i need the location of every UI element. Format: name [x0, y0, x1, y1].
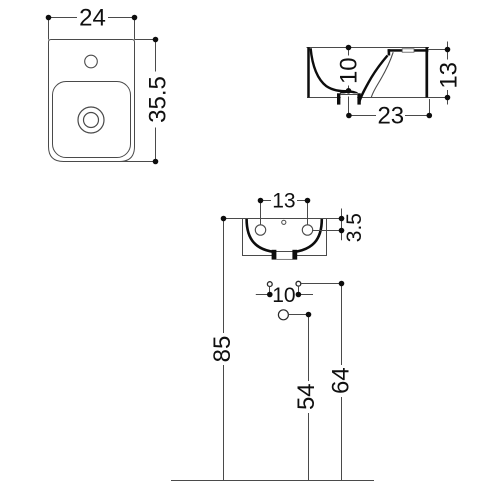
svg-text:85: 85: [209, 336, 236, 363]
svg-text:35.5: 35.5: [144, 76, 171, 123]
floor line: [171, 480, 374, 482]
svg-text:23: 23: [377, 103, 404, 130]
dimension 85 (rim height): [209, 216, 242, 481]
dimension 10 (side view depth): [336, 45, 363, 94]
dimension 3.5 (front, hole depth): [312, 209, 366, 243]
fixing hole to 64 line: [301, 283, 342, 285]
side view deck (thick bar): [388, 49, 429, 52]
right bowl inner curve (thick): [359, 56, 388, 104]
right bowl outer curve (thin): [371, 52, 393, 97]
svg-text:10: 10: [336, 57, 363, 84]
dimension 24: [46, 4, 138, 39]
svg-text:24: 24: [79, 4, 106, 31]
svg-text:54: 54: [293, 383, 320, 410]
side view right wall (thick): [425, 47, 428, 97]
dimension 13 (side view height): [429, 42, 463, 105]
svg-text:10: 10: [272, 284, 295, 307]
top view inner bowl rim: [53, 82, 131, 158]
faucet hole: [85, 55, 98, 68]
front drain stub: [272, 250, 298, 260]
svg-text:64: 64: [328, 367, 355, 394]
faucet hole in deck (white gap): [402, 49, 414, 52]
dimension 23 (side view width): [346, 97, 432, 130]
side drain stub: [337, 93, 361, 104]
drain outer circle: [78, 107, 104, 133]
side view left wall (thick): [307, 47, 310, 97]
front view outline: [243, 219, 327, 256]
dimension 64 (fixing hole height): [328, 281, 355, 481]
drain inner circle: [84, 113, 99, 128]
drain outlet circle: [278, 310, 288, 320]
side view bottom edge: [307, 97, 429, 99]
left wall fixing hole: [267, 282, 272, 287]
deck left end stub: [388, 49, 391, 55]
svg-text:13: 13: [435, 62, 462, 89]
dimension 54 (drain height): [293, 312, 320, 481]
dimension 35.5: [118, 37, 171, 165]
side view top edge: [307, 47, 430, 49]
right wall fixing hole: [296, 281, 301, 286]
top view outer body: [49, 40, 135, 162]
overflow hole: [282, 220, 286, 224]
left mounting hole: [255, 225, 265, 235]
dimension 13 (front, hole spacing): [258, 189, 311, 225]
svg-text:13: 13: [272, 189, 295, 212]
left bowl curve (section): [311, 48, 349, 91]
drain to 54 line: [289, 314, 309, 316]
right mounting hole: [302, 225, 312, 235]
bowl bottom to drain junction: [340, 91, 357, 93]
front bowl curve (thick): [247, 219, 322, 253]
svg-text:3.5: 3.5: [343, 213, 366, 242]
dimension 10 (fixing hole spacing): [256, 284, 313, 307]
